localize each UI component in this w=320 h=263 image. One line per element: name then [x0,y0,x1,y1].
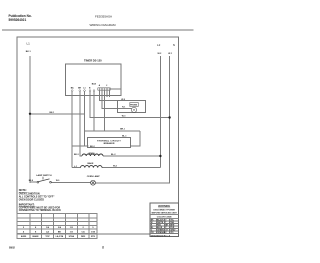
svg-text:CONNECTING TO TERMINAL BLOCK: CONNECTING TO TERMINAL BLOCK [19,209,61,212]
svg-text:WARNING: WARNING [158,205,170,208]
svg-text:08/92: 08/92 [9,248,15,250]
svg-text:CA: CA [82,230,86,233]
svg-text:BAKE: BAKE [88,162,95,165]
svg-text:BREAKER: BREAKER [104,142,115,145]
svg-text:OVEN DOOR CLOSED: OVEN DOOR CLOSED [19,198,45,201]
svg-text:TIMER DS-120: TIMER DS-120 [84,59,102,63]
svg-text:NOTE:: NOTE: [19,188,27,192]
svg-text:8: 8 [102,246,104,250]
svg-text:LA: LA [46,230,49,233]
svg-text:FED355ASA: FED355ASA [95,15,112,19]
svg-text:N: N [173,43,175,47]
svg-text:STA4: STA4 [69,235,75,238]
svg-text:THERMAL CIRCUIT: THERMAL CIRCUIT [97,139,121,142]
svg-text:5995264021: 5995264021 [9,18,27,22]
svg-text:BROIL: BROIL [89,153,96,155]
svg-text:W-9: W-9 [56,180,59,182]
svg-text:L2: L2 [157,43,161,47]
svg-text:5995264022 Rev. A: 5995264022 Rev. A [151,234,171,237]
svg-text:LA,STA: LA,STA [56,235,64,238]
svg-text:OVEN LAMP: OVEN LAMP [87,175,101,178]
svg-text:BK-8: BK-8 [29,180,33,182]
svg-text:A/W9: A/W9 [21,235,27,238]
svg-text:TOP: TOP [45,236,50,238]
svg-text:BLB: BLB [92,84,97,86]
svg-text:L1: L1 [27,42,31,46]
svg-text:VIO: VIO [170,232,174,234]
svg-text:WIRING DIAGRAM: WIRING DIAGRAM [90,23,117,27]
svg-text:BK-1: BK-1 [26,51,32,53]
svg-text:J: J [106,85,107,87]
svg-text:BK: BK [58,231,62,233]
svg-text:LAMP SWITCH: LAMP SWITCH [36,174,52,177]
svg-text:PROBE: PROBE [130,105,137,107]
svg-text:BAKE: BAKE [33,235,40,238]
svg-text:STK: STK [91,236,96,238]
svg-text:DISCONNECT POWER: DISCONNECT POWER [154,209,176,211]
